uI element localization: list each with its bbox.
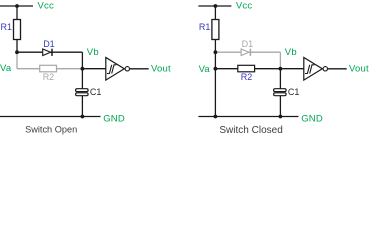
junction: node Va: [214, 67, 218, 71]
wire: gray R2 right to node Vb junction: [57, 68, 83, 70]
svg-text:D1: D1: [43, 39, 55, 49]
wire: inverter output to Vout: [130, 68, 149, 70]
junction: diode anode node: [214, 50, 218, 54]
diode D1 (active): [43, 49, 51, 56]
wire: node Vb to inverter input: [280, 68, 303, 70]
svg-text:R2: R2: [241, 72, 253, 82]
wire: bottom GND rail: [198, 116, 298, 118]
svg-text:R2: R2: [43, 72, 55, 82]
wire: Vcc rail down to R1: [16, 5, 18, 19]
inverter output bubble: [323, 67, 327, 71]
wire: gray diode net horizontal (inactive): [215, 51, 280, 53]
wire: inverter output to Vout: [328, 68, 347, 70]
svg-text:Va: Va: [199, 64, 211, 75]
junction: node Va top (diode anode): [15, 50, 19, 54]
junction: node Vb: [81, 67, 85, 71]
svg-text:GND: GND: [103, 113, 125, 124]
junction: C1 / GND rail: [279, 115, 283, 119]
op-amp U2: Schmitt-trigger inverter: [304, 58, 323, 81]
wire: Vcc rail down to R1: [214, 5, 216, 19]
resistor R2 (active): [238, 65, 255, 72]
svg-text:Va: Va: [0, 63, 12, 74]
svg-text:R1: R1: [1, 22, 13, 32]
wire: C1 bottom to ground rail: [81, 96, 83, 117]
resistor R1: [212, 20, 219, 40]
wire: diode net horizontal (active, black): [17, 51, 82, 53]
svg-text:Vb: Vb: [285, 47, 297, 58]
wire: C1 bottom to ground rail: [279, 96, 281, 117]
wire: node Vb to inverter input: [82, 68, 105, 70]
wire: node Vb down to C1: [279, 69, 281, 89]
svg-text:C1: C1: [90, 87, 102, 97]
wire: diode cathode corner down to node Vb: [81, 52, 83, 68]
junction: Vcc rail / R1 top: [214, 4, 218, 8]
svg-text:D1: D1: [242, 39, 254, 49]
junction: switch rail / GND rail: [214, 115, 218, 119]
inverter output bubble: [125, 67, 129, 71]
wire: closed-switch rail down to ground: [214, 52, 216, 116]
diode D1 (inactive, gray): [241, 49, 249, 56]
junction: Vcc rail / R1 top: [15, 4, 19, 8]
svg-text:Switch Closed: Switch Closed: [219, 125, 282, 136]
wire: gray segment node Va rail (17,52.2)-(17,68.7): [16, 52, 18, 68]
wire: R1 bottom to diode node: [16, 40, 18, 53]
capacitor C1: [274, 89, 287, 92]
svg-text:Vcc: Vcc: [236, 0, 252, 11]
resistor R2 (inactive, gray): [40, 65, 57, 72]
wire: node Vb down to C1: [81, 69, 83, 89]
wire: R2 right to node Vb: [255, 68, 281, 70]
hysteresis symbol: [107, 65, 116, 74]
wire: gray Va horizontal to R2 left: [17, 68, 40, 70]
capacitor C1: [76, 89, 89, 92]
op-amp U1: Schmitt-trigger inverter: [106, 58, 125, 81]
svg-text:GND: GND: [301, 113, 323, 124]
svg-text:Vcc: Vcc: [38, 0, 54, 11]
wire: top Vcc rail: [0, 5, 33, 7]
junction: C1 / GND rail: [81, 115, 85, 119]
wire: bottom GND rail: [0, 116, 101, 118]
svg-text:Switch Open: Switch Open: [25, 125, 77, 135]
svg-text:Vb: Vb: [87, 47, 99, 58]
wire: R1 bottom to diode node: [214, 40, 216, 53]
svg-text:Vout: Vout: [349, 64, 369, 75]
resistor R1: [14, 20, 21, 40]
wire: node Va to R2 left (active, black): [215, 68, 237, 70]
svg-text:Vout: Vout: [151, 64, 171, 75]
svg-text:C1: C1: [288, 87, 300, 97]
junction: node Vb: [279, 67, 283, 71]
wire: top Vcc rail: [198, 5, 231, 7]
hysteresis symbol: [305, 65, 314, 74]
svg-text:R1: R1: [199, 22, 211, 32]
wire: gray diode cathode corner down to node Vb: [279, 52, 281, 68]
